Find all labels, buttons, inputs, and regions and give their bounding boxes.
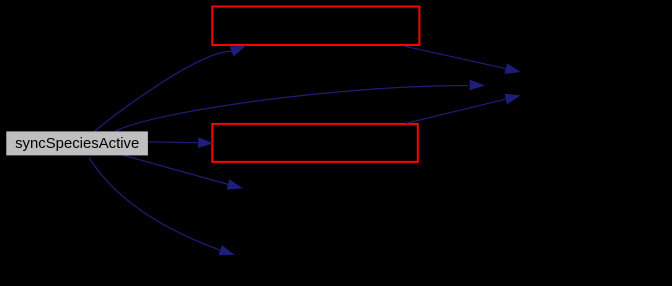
svg-text:syncSpeciesActive: syncSpeciesActive [15, 136, 139, 152]
